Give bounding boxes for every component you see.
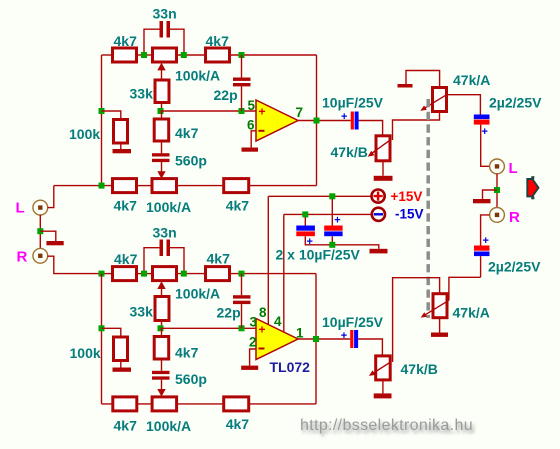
wiper arrow of P1 (points up) bbox=[157, 63, 165, 71]
ground bar (output mid) bbox=[473, 199, 491, 203]
wire 4k7 to 560p bbox=[161, 141, 163, 153]
wire C5 to L output node bbox=[481, 125, 490, 167]
capacitor C1 33n plates bbox=[160, 21, 164, 38]
capacitor C8 33n plates (bottom) bbox=[160, 240, 164, 257]
wire ground to P4 top bbox=[406, 71, 440, 88]
node junction -15V / cap bbox=[302, 211, 308, 217]
node junction +15V / cap bbox=[329, 193, 335, 199]
ground bar (power caps) bbox=[370, 249, 388, 254]
node junction mid row b at 22p bbox=[239, 325, 245, 331]
svg-text:7: 7 bbox=[296, 105, 304, 120]
svg-text:http://bsselektronika.hu: http://bsselektronika.hu bbox=[300, 417, 473, 434]
wire pin4 riser (V-) bbox=[283, 214, 285, 332]
svg-text:4k7: 4k7 bbox=[114, 33, 138, 49]
svg-text:4k7: 4k7 bbox=[175, 345, 199, 361]
wire C11 to 47k/B-b top bbox=[358, 339, 382, 356]
resistor R14 4k7 (bottom row b right) bbox=[224, 397, 249, 411]
wire P2 to R7 bbox=[177, 185, 224, 187]
connector L input bbox=[33, 200, 48, 215]
wire R9 to feedback corner b bbox=[230, 273, 317, 275]
resistor R6 4k7 (bottom row left) bbox=[113, 179, 137, 193]
op-amp U1A body bbox=[256, 100, 298, 141]
node junction 33n right lead / top row bbox=[181, 52, 187, 58]
wire L input to bottom row bbox=[48, 186, 54, 208]
wire P1 wiper to 33k bbox=[161, 69, 163, 80]
node junction top row b at bus bbox=[99, 271, 105, 277]
node junction output ground tap bbox=[494, 187, 500, 193]
svg-text:4k7: 4k7 bbox=[226, 416, 250, 432]
capacitor C3 22p plates bbox=[233, 78, 251, 81]
wire C10 top lead bbox=[241, 274, 243, 296]
wire +15V junction down to cap C7 bbox=[331, 199, 333, 226]
svg-text:4k7: 4k7 bbox=[207, 251, 231, 267]
node junction mid row b at 33k bbox=[158, 325, 164, 331]
wire 560p-b to wiper arrow of P6 bbox=[161, 380, 163, 390]
svg-text:R: R bbox=[17, 249, 28, 266]
wire R1 to pot P1 bbox=[137, 54, 153, 56]
svg-text:-15V: -15V bbox=[395, 207, 424, 222]
svg-text:560p: 560p bbox=[175, 153, 207, 169]
wiper diagonal of P7 bbox=[372, 362, 391, 374]
wire ground tap (output) bbox=[483, 190, 498, 199]
resistor R9 4k7 (top row b right) bbox=[206, 267, 230, 281]
capacitor C12 2u2/25V plates (bottom) bbox=[474, 246, 490, 251]
node junction output / feedback bbox=[314, 118, 320, 124]
ground bar above P4 (inverted ground) bbox=[398, 84, 413, 88]
wire R7 to feedback vertical bbox=[249, 185, 317, 187]
svg-text:+: + bbox=[334, 215, 340, 227]
op-amp U1A minus sign bbox=[259, 130, 265, 132]
svg-text:10µF/25V: 10µF/25V bbox=[322, 95, 384, 111]
wire pin8 riser (V+) bbox=[267, 196, 269, 324]
svg-text:4k7: 4k7 bbox=[175, 125, 199, 141]
potentiometer P2 100k/A (bottom row) bbox=[152, 179, 177, 193]
wire C12 bottom lead bbox=[480, 256, 482, 277]
resistor R10 33k (vertical b) bbox=[155, 297, 169, 321]
svg-text:33k: 33k bbox=[130, 86, 154, 102]
node junction output b / feedback bbox=[313, 336, 319, 342]
svg-text:+: + bbox=[259, 323, 266, 337]
svg-text:560p: 560p bbox=[175, 371, 207, 387]
resistor R13 4k7 (bottom row b left) bbox=[113, 397, 137, 411]
wire feedback vertical b x316 bbox=[315, 274, 317, 404]
wire common cap rail to ground bbox=[305, 236, 379, 249]
wire 4k7-b to 560p-b bbox=[161, 359, 163, 371]
capacitor C5 2u2/25V plates bbox=[474, 115, 490, 120]
wire C1 left lead bbox=[144, 29, 160, 52]
node junction 33n-b right lead bbox=[181, 271, 187, 277]
node junction mid row at 33k bbox=[158, 108, 164, 114]
wire C3 bottom lead bbox=[241, 86, 243, 111]
dashed separator line bbox=[426, 99, 430, 318]
svg-text:100k/A: 100k/A bbox=[175, 286, 220, 302]
svg-text:2µ2/25V: 2µ2/25V bbox=[488, 259, 541, 275]
node junction 33n-b left lead bbox=[141, 271, 147, 277]
red arrow icon bbox=[527, 179, 538, 196]
wiper arrow of P2 (points down) bbox=[157, 171, 165, 179]
wire R6 to P2 bbox=[137, 185, 153, 187]
wire +15V rail bbox=[268, 195, 370, 197]
wire mid row b (junction to pin3) bbox=[161, 327, 257, 329]
resistor R3 33k (vertical) bbox=[155, 80, 169, 103]
node junction input ground tap bbox=[37, 228, 43, 234]
svg-text:R: R bbox=[509, 209, 520, 226]
svg-text:100k: 100k bbox=[69, 126, 100, 142]
wire C3 top lead bbox=[241, 55, 243, 78]
svg-text:100k/A: 100k/A bbox=[175, 68, 220, 84]
wire output pin 7 bbox=[298, 120, 351, 122]
wiper arrow of P6 (points down) bbox=[157, 389, 165, 397]
svg-text:2 x 10µF/25V: 2 x 10µF/25V bbox=[276, 247, 361, 263]
wire C1 right lead bbox=[170, 29, 184, 52]
wire left bus vertical (bottom channel) bbox=[101, 274, 103, 404]
wire 560p to wiper arrow of P2 bbox=[161, 162, 163, 172]
node junction cap rail bbox=[329, 242, 335, 248]
wiper arrow of P5 (points up) bbox=[157, 281, 165, 289]
node junction mid row at bus bbox=[99, 108, 105, 114]
svg-text:47k/A: 47k/A bbox=[453, 305, 490, 321]
svg-text:100k/A: 100k/A bbox=[146, 199, 191, 215]
potentiometer P8 47k/A (bottom) bbox=[433, 294, 447, 318]
svg-text:47k/A: 47k/A bbox=[453, 72, 490, 88]
wire bus junction to 100k top bbox=[102, 111, 121, 120]
wire 33k bottom to mid junction bbox=[161, 103, 163, 112]
connector L output bbox=[490, 159, 505, 174]
ground bar under 100k-b bbox=[113, 368, 132, 372]
svg-text:4k7: 4k7 bbox=[206, 33, 230, 49]
terminal +15V circle bbox=[372, 190, 385, 203]
wire -15V junction down to cap C6 bbox=[304, 217, 306, 226]
svg-text:47k/B: 47k/B bbox=[331, 144, 368, 160]
svg-text:8: 8 bbox=[259, 305, 267, 320]
ground bar under P8 bbox=[431, 333, 448, 337]
wire R2 to feedback corner bbox=[230, 54, 317, 56]
svg-text:+: + bbox=[482, 126, 488, 138]
svg-text:22p: 22p bbox=[214, 87, 238, 103]
wire 100k-b bottom to ground bbox=[120, 361, 122, 368]
connector R output bbox=[490, 208, 505, 223]
node junction mid row b at bus bbox=[99, 325, 105, 331]
connector R input bbox=[33, 248, 48, 263]
wire P7 bottom to ground bbox=[382, 380, 384, 394]
wire bottom row (input to R6) bbox=[54, 185, 113, 187]
svg-text:TL072: TL072 bbox=[270, 359, 311, 375]
wire pin 2 to ground bbox=[250, 349, 256, 366]
wire C4 to 47k/B top bbox=[359, 121, 383, 136]
svg-text:22p: 22p bbox=[217, 305, 241, 321]
capacitor C9 560p plates (bottom) bbox=[152, 371, 170, 374]
capacitor C11 10uF/25V plates (bottom) bbox=[350, 330, 353, 348]
wire P3 bottom to ground bbox=[382, 161, 384, 176]
wire R8 to pot P5 bbox=[137, 273, 153, 275]
capacitor C10 22p plates (bottom) bbox=[233, 295, 251, 298]
resistor R11 100k (vertical b) bbox=[114, 337, 128, 361]
svg-text:4k7: 4k7 bbox=[114, 418, 138, 434]
wire C10 bottom lead bbox=[241, 304, 243, 328]
ground bar at pin 6 bbox=[242, 148, 259, 152]
svg-text:2µ2/25V: 2µ2/25V bbox=[489, 95, 542, 111]
svg-text:2: 2 bbox=[249, 335, 257, 350]
wiper diagonal of P8 bbox=[424, 300, 449, 315]
wire R input to bottom channel top row bbox=[48, 256, 102, 273]
node junction bottom row at bus bbox=[99, 183, 105, 189]
svg-text:L: L bbox=[16, 200, 25, 217]
resistor R8 4k7 (top row b left) bbox=[113, 267, 137, 281]
wire top row b left segment bbox=[102, 273, 113, 275]
potentiometer P4 47k/A bbox=[433, 88, 447, 112]
svg-text:33n: 33n bbox=[153, 6, 177, 22]
wire output pin 1 bbox=[298, 338, 350, 340]
potentiometer P7 47k/B (bottom) bbox=[376, 356, 391, 380]
resistor R7 4k7 (bottom row right) bbox=[224, 179, 249, 193]
capacitor C6 10uF (left, minus rail) plates bbox=[296, 226, 315, 231]
svg-text:4k7: 4k7 bbox=[114, 251, 138, 267]
svg-text:L: L bbox=[509, 160, 518, 177]
wire P3 wiper net to 47k/A bottom bbox=[393, 112, 440, 140]
svg-text:47k/B: 47k/B bbox=[401, 361, 438, 377]
svg-text:10µF/25V: 10µF/25V bbox=[322, 314, 384, 330]
svg-text:+: + bbox=[341, 111, 347, 123]
capacitor C2 560p plates bbox=[152, 153, 170, 156]
svg-text:+: + bbox=[259, 105, 266, 119]
wire bus junction to 100k-b top bbox=[102, 328, 121, 337]
node junction 22p-b top bbox=[239, 271, 245, 277]
wire bottom row b bbox=[102, 403, 317, 405]
svg-text:+: + bbox=[483, 235, 489, 247]
svg-text:33k: 33k bbox=[130, 304, 154, 320]
wire C8 left lead bbox=[144, 248, 160, 271]
resistor R5 4k7 (vertical) bbox=[154, 119, 169, 141]
wire L to R input link bbox=[39, 215, 41, 249]
wire P5 wiper to 33k-b bbox=[161, 288, 163, 297]
potentiometer P5 100k/A (top row b) bbox=[153, 267, 177, 281]
svg-text:4k7: 4k7 bbox=[114, 198, 138, 214]
resistor R2 4k7 (top row right) bbox=[206, 48, 230, 62]
wire 100k bottom to ground bbox=[120, 143, 122, 149]
wire top row left segment (bus corner to R1) bbox=[102, 54, 113, 56]
wire pin 6 to ground bbox=[251, 131, 256, 148]
wire feedback vertical x316 bbox=[316, 55, 318, 186]
svg-text:5: 5 bbox=[248, 98, 256, 113]
potentiometer P6 100k/A (bottom row b) bbox=[152, 397, 177, 411]
wire -15V rail bbox=[284, 213, 371, 215]
resistor R4 100k (vertical) bbox=[114, 120, 128, 144]
wire C8 right lead bbox=[170, 248, 184, 271]
ground bar under P3 bbox=[374, 176, 393, 181]
wire L node to R node vertical bbox=[496, 174, 498, 208]
wire left bus vertical (top channel) bbox=[101, 55, 103, 186]
resistor R12 4k7 (vertical b) bbox=[154, 337, 169, 360]
wire pot P1 to R2 bbox=[177, 54, 206, 56]
wire P8 wiper up to 2u2-b bbox=[449, 277, 481, 300]
wire R node to 2u2 bottom cap bbox=[481, 215, 490, 246]
terminal -15V circle bbox=[372, 208, 385, 221]
capacitor C4 10uF/25V plates bbox=[351, 112, 354, 130]
wire P4 wiper to 2u2 bbox=[447, 95, 481, 115]
wire pot P5 to R9 bbox=[177, 273, 206, 275]
potentiometer P1 100k/A (top row) bbox=[153, 48, 177, 62]
svg-text:100k/A: 100k/A bbox=[146, 418, 191, 434]
wire P8 bottom to ground bbox=[439, 318, 441, 333]
node junction 33n left lead / top row bbox=[141, 52, 147, 58]
node junction mid row at 22p bbox=[239, 108, 245, 114]
wire P7 wiper up to 47k/A-b top bbox=[393, 278, 440, 362]
svg-text:33n: 33n bbox=[153, 225, 177, 241]
capacitor C7 10uF (right, plus rail) plates bbox=[324, 226, 342, 231]
wire mid junction to 4k7 vertical bbox=[161, 111, 163, 119]
ground bar under 100k bbox=[113, 149, 132, 153]
wire mid row (junction to op-amp pin5) bbox=[161, 110, 257, 112]
wiper diagonal of P4 bbox=[423, 95, 446, 109]
svg-text:100k: 100k bbox=[70, 345, 101, 361]
op-amp U1B body bbox=[256, 319, 298, 360]
ground bar at pin 2 bbox=[241, 366, 258, 370]
svg-text:4: 4 bbox=[274, 314, 282, 329]
wire 33k-b bottom to mid junction bbox=[161, 321, 163, 329]
wire input ground tap bbox=[40, 231, 56, 241]
wire mid junction b to 4k7 vertical bbox=[161, 328, 163, 336]
ground bar under P7 bbox=[374, 393, 392, 398]
wiper diagonal of P3 bbox=[371, 140, 391, 154]
node junction 22p top / top row bbox=[239, 52, 245, 58]
svg-text:1: 1 bbox=[296, 326, 304, 341]
svg-text:+15V: +15V bbox=[391, 189, 423, 204]
svg-text:3: 3 bbox=[250, 315, 258, 330]
svg-text:4k7: 4k7 bbox=[226, 198, 250, 214]
op-amp U1B minus sign bbox=[259, 348, 265, 350]
potentiometer P3 47k/B bbox=[376, 136, 390, 161]
resistor R1 4k7 (top row left) bbox=[113, 48, 137, 62]
ground bar (input mid) bbox=[46, 241, 63, 245]
svg-text:+: + bbox=[341, 330, 347, 342]
